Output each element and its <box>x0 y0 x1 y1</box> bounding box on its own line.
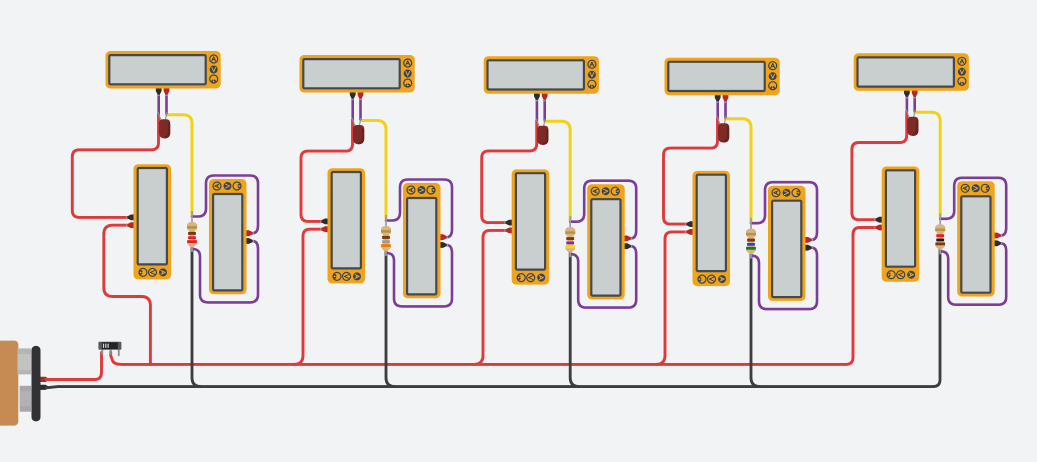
wire black resistor R2 bottom down to - rail <box>386 251 395 387</box>
multimeter U1A (voltage across LED D1, V selected) <box>106 51 221 96</box>
slide switch S1 <box>98 342 121 356</box>
LED D1 (red) <box>158 112 170 138</box>
wire purple voltmeter U1C red probe around top to resistor R1 top lead <box>192 176 258 234</box>
wire purple voltmeter U1C black probe around bottom to resistor R1 bottom lead <box>192 241 258 302</box>
wire purple voltmeter U2C red probe around top to resistor R2 top lead <box>386 180 452 238</box>
LED D4 (red) <box>717 116 729 142</box>
battery BT1 (9V battery, side view at canvas edge) <box>0 341 49 426</box>
resistor R3 470 ohm <box>565 216 575 257</box>
multimeter U3C (voltage across R3, V selected, rotated -90deg) <box>587 184 632 299</box>
wire red ammeter U2B red probe down to + rail <box>294 229 323 364</box>
wire purple voltmeter U5C red probe around top to resistor R5 top lead <box>940 178 1006 236</box>
wire purple multimeter U5A black probe to LED D5 cathode leg <box>906 95 909 111</box>
multimeter U5B (series ammeter, A selected, rotated 90deg) <box>874 167 919 282</box>
resistor R4 560 ohm <box>746 218 756 259</box>
wire red LED D5 cathode to ammeter U5B black probe <box>852 112 907 220</box>
wire red ammeter U5B red probe joins + rail end <box>860 226 877 229</box>
wire purple multimeter U5A red probe to LED D5 anode leg <box>913 95 916 111</box>
wire yellow LED D1 anode to resistor R1 top <box>167 115 193 215</box>
wire red ammeter U3B red probe down to + rail <box>474 230 507 364</box>
wire purple voltmeter U3C red probe around top to resistor R3 top lead <box>570 181 636 239</box>
wire purple multimeter U4A red probe to LED D4 anode leg <box>724 99 727 117</box>
wire red ammeter U1B red probe to + rail (routed around switch) <box>104 225 151 364</box>
wire yellow LED D4 anode to resistor R4 top <box>726 119 752 222</box>
multimeter U4C (voltage across R4, V selected, rotated -90deg) <box>768 186 813 301</box>
resistor R1 220 ohm <box>187 211 197 252</box>
wire yellow LED D3 anode to resistor R3 top <box>545 121 571 220</box>
multimeter U4A (voltage across LED D4, V selected) <box>665 58 780 103</box>
multimeter U3B (series ammeter, A selected, rotated 90deg) <box>504 169 549 284</box>
wire yellow LED D2 anode to resistor R2 top <box>361 121 387 220</box>
wire black resistor R1 bottom down to - rail <box>192 247 201 387</box>
wire red LED D1 cathode to ammeter U1B black probe <box>72 114 158 217</box>
wire purple voltmeter U5C black probe around bottom to resistor R5 bottom lead <box>940 243 1006 304</box>
wire purple multimeter U4A black probe to LED D4 cathode leg <box>716 99 719 117</box>
wire purple voltmeter U4C red probe around top to resistor R4 top lead <box>751 182 817 240</box>
multimeter U5C (voltage across R5, V selected, rotated -90deg) <box>957 181 1002 296</box>
wire purple voltmeter U4C black probe around bottom to resistor R4 bottom lead <box>751 248 817 309</box>
multimeter U5A (voltage across LED D5, V selected) <box>854 53 969 98</box>
wire black resistor R4 bottom down to - rail <box>751 254 760 387</box>
wire red positive rail: switch S1 pin2 down then right to group 5 ammeter red probe <box>111 228 877 365</box>
wire purple multimeter U2A red probe to LED D2 anode leg <box>359 97 362 120</box>
resistor R5 1k ohm <box>935 213 945 254</box>
wire purple voltmeter U3C black probe around bottom to resistor R3 bottom lead <box>570 246 636 307</box>
wire red ammeter U4B red probe down to + rail <box>656 232 688 365</box>
multimeter U1B (series ammeter, A selected, rotated 90deg) <box>126 164 171 279</box>
wire purple voltmeter U2C black probe around bottom to resistor R2 bottom lead <box>386 245 452 306</box>
multimeter U3A (voltage across LED D3, V selected) <box>484 56 599 101</box>
multimeter U2C (voltage across R2, V selected, rotated -90deg) <box>403 183 448 298</box>
wire yellow LED D5 anode to resistor R5 top <box>915 112 941 217</box>
multimeter U2A (voltage across LED D2, V selected) <box>300 55 415 100</box>
wire black resistor R3 bottom down to - rail <box>570 252 579 386</box>
LED D2 (red) <box>352 118 364 144</box>
wire black negative rail: battery - terminal right to group 5 resistor bottom <box>46 250 940 388</box>
multimeter U4B (series ammeter, A selected, rotated 90deg) <box>685 171 730 286</box>
resistor R2 380 ohm <box>381 215 391 256</box>
wire purple multimeter U1A black probe to LED D1 cathode leg <box>157 93 160 114</box>
multimeter U2B (series ammeter, A selected, rotated 90deg) <box>320 168 365 283</box>
wire purple multimeter U3A red probe to LED D3 anode leg <box>543 98 546 120</box>
LED D5 (red) <box>906 110 918 136</box>
wire purple multimeter U3A black probe to LED D3 cathode leg <box>536 98 539 120</box>
wire red LED D4 cathode to ammeter U4B black probe <box>664 118 718 224</box>
wire red LED D2 cathode to ammeter U2B black probe <box>301 120 353 221</box>
wire red LED D3 cathode to ammeter U3B black probe <box>482 121 537 223</box>
wire purple multimeter U2A black probe to LED D2 cathode leg <box>351 97 354 120</box>
LED D3 (red) <box>536 119 548 145</box>
wire red battery + terminal to switch S1 pin1 <box>46 353 102 380</box>
multimeter U1C (voltage across R1, V selected, rotated -90deg) <box>209 179 254 294</box>
wire purple multimeter U1A red probe to LED D1 anode leg <box>165 93 168 114</box>
